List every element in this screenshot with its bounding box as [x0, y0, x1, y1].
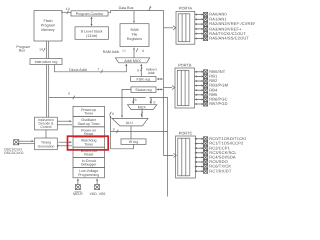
pins PORTB	[195, 70, 208, 106]
svg-text:Program: Program	[41, 23, 55, 27]
wire FSR to bus	[157, 78, 163, 80]
block Low-Voltage Programming	[73, 168, 105, 178]
svg-text:8: 8	[112, 112, 114, 116]
pins PORTA	[195, 12, 208, 40]
wire timing to timers arrows	[59, 142, 73, 146]
wire slash data bus 8	[149, 7, 151, 10]
wire ALU out to bus	[111, 130, 168, 134]
pin RC4	[195, 155, 208, 159]
svg-text:RB7/PGD: RB7/PGD	[209, 101, 227, 106]
svg-text:Bus: Bus	[19, 49, 25, 53]
pin RB7	[195, 102, 208, 106]
block Status reg	[131, 87, 156, 93]
block PORTA	[176, 12, 195, 45]
svg-text:RA5/AN4/SS/C2OUT: RA5/AN4/SS/C2OUT	[209, 36, 249, 41]
block Watchdog Timer	[73, 137, 105, 147]
block Addr MUX	[115, 58, 149, 63]
pins PORTC	[195, 137, 208, 174]
wire bus to PORTA	[164, 26, 176, 30]
wire bus to RAM	[133, 11, 135, 23]
svg-text:RC7/RX/DT: RC7/RX/DT	[209, 168, 232, 173]
block Oscillator Start-up Timer	[73, 117, 105, 127]
pad OSC crystal	[14, 140, 19, 145]
wire data bus main	[108, 11, 163, 153]
pin RC1	[195, 142, 208, 146]
svg-text:FSR reg: FSR reg	[137, 78, 150, 82]
svg-text:8: 8	[149, 5, 151, 9]
block Program Counter	[71, 11, 108, 16]
pin RA1	[195, 17, 208, 21]
pin RC3	[195, 151, 208, 155]
svg-text:Direct Addr: Direct Addr	[69, 68, 88, 72]
block FSR reg	[131, 76, 157, 81]
wire status to MUX (3)	[132, 97, 134, 103]
pin RA0	[195, 12, 208, 16]
pin RB6	[195, 97, 208, 101]
wire MCLR pin	[77, 179, 79, 185]
svg-text:Flash: Flash	[43, 19, 52, 23]
wire ALU to W reg	[130, 126, 132, 139]
svg-text:Registers: Registers	[127, 37, 142, 41]
svg-text:ALU: ALU	[126, 121, 133, 125]
wire addr mux to RAM (9)	[134, 48, 138, 58]
block Flash Program Memory	[34, 11, 62, 42]
block Instruction Decode & Control	[35, 117, 58, 130]
svg-text:Timer: Timer	[84, 112, 94, 116]
pin RB1	[195, 74, 208, 78]
svg-text:(1): (1)	[122, 50, 125, 53]
svg-text:RAM Addr: RAM Addr	[103, 50, 120, 54]
pin RA5	[195, 36, 208, 40]
pin RB5	[195, 93, 208, 97]
block PORTB	[175, 68, 195, 108]
svg-text:W reg: W reg	[129, 140, 139, 144]
label MCLR overline	[74, 191, 81, 193]
wire bus to PORTB	[164, 86, 175, 90]
svg-text:VDD, VSS: VDD, VSS	[90, 192, 107, 196]
svg-text:Status reg: Status reg	[135, 88, 151, 92]
pad MCLR	[75, 185, 80, 190]
svg-text:8: 8	[113, 128, 115, 132]
block Instruction reg	[30, 59, 62, 65]
block In-Circuit Debugger	[73, 157, 105, 167]
svg-text:Instruction reg: Instruction reg	[35, 60, 58, 64]
pad VDD VSS	[95, 185, 100, 190]
wire bus to PORTC	[164, 152, 177, 157]
pin RC7	[195, 169, 208, 173]
wire literal to MUX	[150, 97, 152, 103]
svg-text:9: 9	[142, 49, 144, 53]
svg-text:Reset: Reset	[84, 153, 93, 157]
svg-text:(13-bit): (13-bit)	[86, 34, 97, 38]
svg-text:OSC2/CLKO: OSC2/CLKO	[4, 151, 24, 155]
svg-text:Programming: Programming	[78, 173, 99, 177]
wire W reg feedback loop	[109, 112, 133, 149]
block Timing Generation	[35, 138, 58, 150]
pin RB0	[195, 70, 208, 74]
block MUX	[128, 105, 157, 110]
svg-text:Reset: Reset	[84, 132, 93, 136]
block ALU	[112, 118, 148, 126]
svg-text:7: 7	[97, 67, 99, 71]
pin RB4	[195, 88, 208, 92]
pin RB2	[195, 79, 208, 83]
wire instr reg to decode double	[47, 65, 49, 118]
pin RA3	[195, 27, 208, 31]
block Brown-out Reset	[73, 147, 105, 157]
svg-text:8: 8	[137, 69, 139, 73]
wire MUX to ALU	[141, 109, 143, 117]
wire program bus double	[43, 41, 48, 59]
svg-text:Debugger: Debugger	[81, 163, 97, 167]
svg-text:14: 14	[39, 47, 43, 51]
wire OSC to timing	[19, 141, 35, 144]
red highlight watchdog timer	[68, 136, 109, 150]
svg-text:PORTB: PORTB	[178, 63, 192, 68]
svg-text:8: 8	[68, 92, 70, 96]
block RAM File Registers	[120, 24, 149, 47]
pin RB3	[195, 84, 208, 88]
svg-text:RAM: RAM	[131, 28, 139, 32]
block W reg	[121, 139, 146, 145]
svg-text:Control: Control	[40, 125, 51, 129]
svg-text:Data Bus: Data Bus	[119, 6, 134, 10]
wire direct addr	[55, 64, 127, 73]
wire PC-stack arrows	[91, 17, 93, 26]
svg-text:Generation: Generation	[38, 144, 55, 148]
svg-text:MCLR: MCLR	[73, 192, 83, 196]
wire decode to timing	[45, 130, 47, 138]
pin RC2	[195, 146, 208, 150]
svg-text:Timer: Timer	[84, 142, 94, 146]
pin RC6	[195, 165, 208, 169]
wire PC to Flash (13-bit)	[64, 11, 72, 14]
pin RA4	[195, 32, 208, 36]
wire status left to ALU	[122, 89, 131, 117]
svg-text:MUX: MUX	[138, 106, 147, 110]
svg-text:3: 3	[135, 98, 137, 102]
svg-text:8 Level Stack: 8 Level Stack	[81, 30, 103, 34]
svg-text:File: File	[132, 32, 138, 36]
svg-text:Addr: Addr	[148, 71, 156, 75]
svg-text:8: 8	[153, 100, 155, 104]
wire decode to timers arrows	[58, 121, 73, 125]
wire VDD pin	[96, 179, 98, 185]
svg-text:PORTC: PORTC	[179, 131, 193, 136]
pin RC5	[195, 160, 208, 164]
svg-text:Start-up Timer: Start-up Timer	[78, 122, 101, 126]
wire status to bus	[157, 88, 163, 90]
wire literal bus 8	[49, 96, 168, 197]
svg-text:Addr MUX: Addr MUX	[124, 59, 141, 63]
wire FSR to addr mux (8 indirect)	[140, 64, 142, 76]
pin RA2	[195, 22, 208, 26]
pin RC0	[195, 137, 208, 141]
svg-text:PORTA: PORTA	[179, 5, 192, 10]
block Power-on Reset	[73, 127, 105, 137]
block Power-up Timer	[73, 106, 105, 116]
block PORTC	[176, 136, 196, 178]
svg-text:Program Counter: Program Counter	[76, 12, 104, 16]
svg-text:13: 13	[66, 7, 70, 11]
block 8 Level Stack	[75, 27, 108, 40]
svg-text:Memory: Memory	[41, 28, 54, 32]
